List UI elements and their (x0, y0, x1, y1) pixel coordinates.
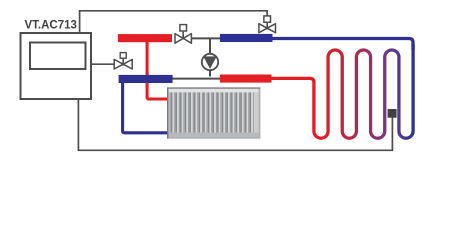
wire from controller right to valve V3 actuator (91, 63, 114, 65)
svg-text:VT.AC713: VT.AC713 (25, 20, 77, 32)
supply pipe bar (red, upper left) (118, 34, 172, 42)
gray pipe: valve V1 to blue bar (176, 37, 221, 39)
valve V3 (on blue bar, left) (114, 53, 132, 69)
supply pipe bar (red, lower middle) (220, 75, 272, 83)
blue return line from coil to blue bar (272, 39, 413, 51)
blue pipe down from return bar to radiator (123, 83, 169, 133)
valve V2 (on blue bar, upper right) (259, 16, 276, 33)
floor temperature sensor (388, 109, 397, 118)
wire from controller top to valve V2 actuator (80, 11, 268, 34)
controller box VT.AC713 (21, 33, 92, 99)
radiator (167, 87, 260, 138)
sensor wire: controller bottom to floor sensor (78, 99, 392, 151)
gray pipe: mixing line lower (173, 78, 221, 80)
controller display (30, 43, 86, 70)
floor heating coil (serpentine, red to blue gradient) (268, 44, 413, 138)
return pipe bar (blue, lower left) (119, 75, 173, 83)
pump P1 (202, 54, 218, 70)
valve V1 (on line after supply bar) (175, 25, 191, 44)
red pipe down from supply bar to radiator (147, 42, 168, 99)
gray pipe: pump branch (209, 38, 211, 76)
return pipe bar (blue, upper right) (220, 34, 273, 42)
